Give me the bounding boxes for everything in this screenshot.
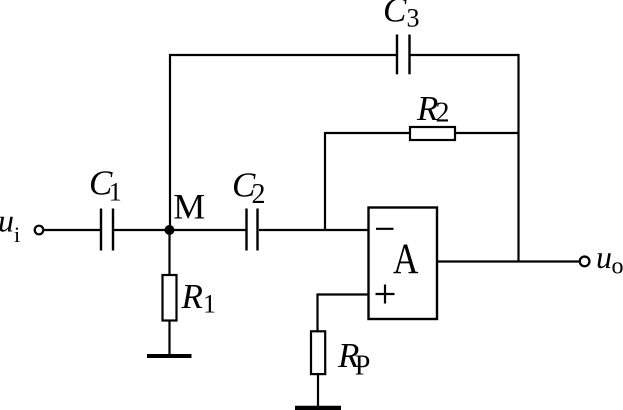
label C2 bbox=[232, 165, 266, 210]
label C3 bbox=[383, 0, 420, 33]
svg-text:M: M bbox=[173, 187, 205, 227]
input terminal u_i bbox=[35, 226, 44, 235]
capacitor C2 bbox=[247, 209, 258, 251]
capacitor C3 bbox=[397, 35, 410, 75]
label u_o bbox=[596, 239, 623, 280]
wire R2 right bbox=[456, 132, 520, 134]
ground under R1 bbox=[147, 354, 192, 358]
ground under RP bbox=[295, 406, 341, 410]
svg-text:A: A bbox=[393, 236, 419, 283]
svg-text:C: C bbox=[383, 0, 407, 30]
wire C2 to op-amp inverting input bbox=[259, 229, 369, 231]
op-amp A bbox=[369, 208, 438, 320]
wire R1 to ground bbox=[168, 322, 170, 356]
svg-text:R: R bbox=[181, 277, 203, 316]
label RP bbox=[337, 336, 370, 382]
label u_i bbox=[0, 203, 20, 247]
op-amp plus pin bbox=[376, 285, 395, 304]
resistor R1 bbox=[163, 275, 177, 321]
resistor RP bbox=[311, 331, 325, 374]
svg-text:o: o bbox=[612, 254, 623, 280]
svg-text:i: i bbox=[14, 222, 20, 247]
svg-text:P: P bbox=[355, 351, 371, 382]
svg-text:3: 3 bbox=[407, 4, 420, 33]
wire right vertical to output bbox=[517, 54, 519, 263]
label R2 bbox=[416, 89, 450, 129]
wire RP to ground bbox=[317, 375, 319, 407]
wire vertical node M to top bbox=[169, 54, 171, 231]
svg-text:1: 1 bbox=[109, 178, 122, 207]
svg-text:1: 1 bbox=[203, 290, 216, 319]
wire top left to C3 bbox=[169, 54, 397, 56]
wire input to C1 bbox=[44, 229, 101, 231]
wire C3 to right vertical bbox=[410, 54, 520, 56]
wire junction down from R2 bbox=[324, 132, 326, 230]
svg-text:u: u bbox=[596, 239, 612, 275]
svg-text:2: 2 bbox=[252, 179, 266, 210]
output terminal u_o bbox=[580, 257, 590, 267]
label C1 bbox=[89, 164, 122, 207]
wire C1 to C2 through node M bbox=[114, 229, 246, 231]
svg-text:u: u bbox=[0, 203, 14, 239]
capacitor C1 bbox=[101, 209, 113, 251]
label R1 bbox=[181, 277, 217, 319]
node M junction dot bbox=[165, 225, 175, 235]
resistor R2 bbox=[410, 127, 455, 140]
wire node M down to R1 bbox=[168, 230, 170, 275]
wire op-amp output bbox=[437, 260, 579, 262]
wire R2 left bbox=[324, 132, 409, 134]
op-amp minus pin bbox=[376, 228, 394, 230]
svg-text:2: 2 bbox=[436, 98, 450, 129]
wire plus input bbox=[317, 294, 369, 332]
